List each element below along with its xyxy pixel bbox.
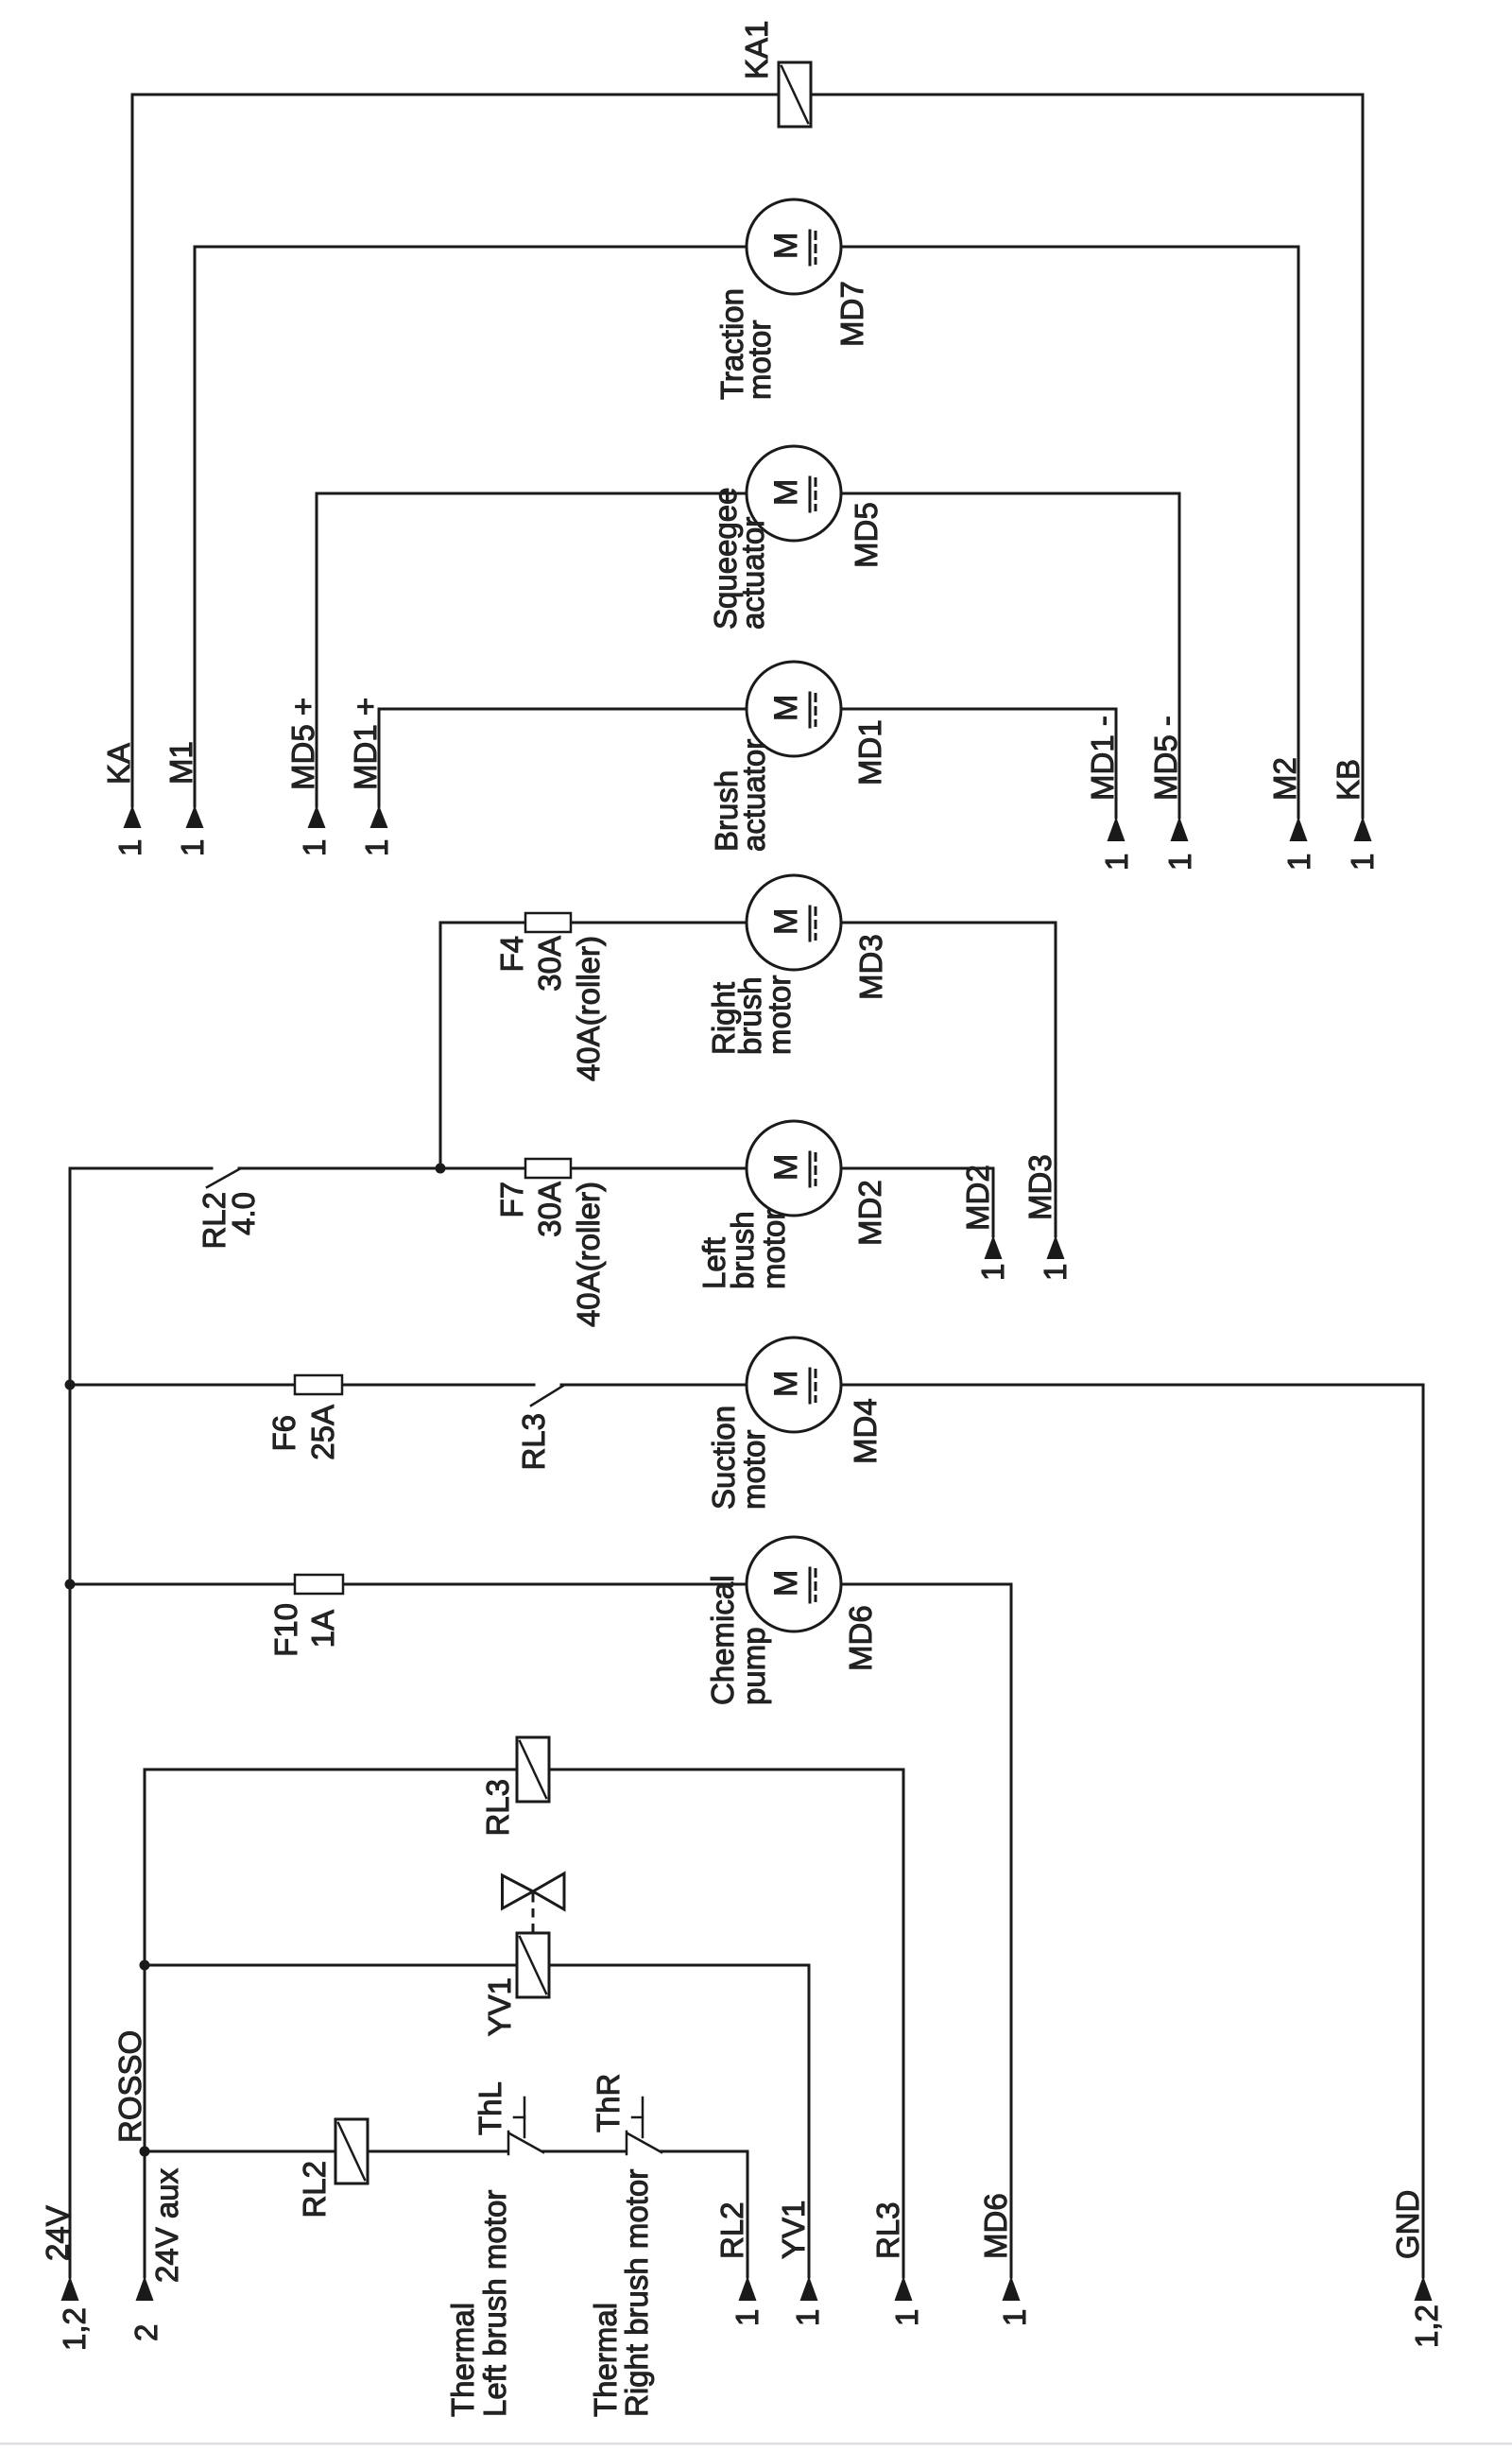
svg-text:MD5 +: MD5 +: [285, 698, 320, 790]
svg-text:MD1 +: MD1 +: [348, 698, 383, 790]
svg-text:1,2: 1,2: [57, 2307, 92, 2351]
svg-text:24V: 24V: [40, 2205, 75, 2261]
svg-text:25A: 25A: [305, 1405, 340, 1460]
svg-text:actuator: actuator: [736, 739, 771, 852]
svg-text:MD5: MD5: [849, 502, 884, 568]
svg-text:1: 1: [175, 839, 210, 856]
svg-text:Left brush motor: Left brush motor: [477, 2190, 512, 2417]
svg-text:MD6: MD6: [978, 2193, 1013, 2259]
svg-text:1: 1: [1099, 854, 1134, 871]
svg-text:MD3: MD3: [853, 934, 888, 1000]
svg-text:YV1: YV1: [482, 1977, 517, 2036]
svg-text:RL3: RL3: [480, 1779, 515, 1837]
svg-text:M: M: [768, 479, 804, 506]
svg-text:30A: 30A: [532, 1182, 567, 1237]
svg-text:1: 1: [1162, 854, 1197, 871]
svg-text:KA: KA: [101, 743, 136, 785]
svg-text:1: 1: [1038, 1264, 1073, 1281]
svg-text:MD3: MD3: [1022, 1154, 1057, 1220]
svg-text:motor: motor: [742, 320, 777, 400]
svg-text:F7: F7: [494, 1182, 529, 1218]
svg-text:1: 1: [975, 1264, 1010, 1281]
svg-text:M: M: [768, 1154, 804, 1181]
svg-text:30A: 30A: [532, 936, 567, 992]
svg-text:1: 1: [359, 839, 394, 856]
svg-text:MD7: MD7: [834, 281, 869, 347]
svg-text:actuator: actuator: [735, 517, 770, 630]
svg-text:F6: F6: [266, 1415, 301, 1452]
svg-text:1: 1: [1281, 854, 1316, 871]
svg-text:MD6: MD6: [843, 1605, 878, 1671]
svg-text:RL2: RL2: [297, 2161, 332, 2218]
svg-text:F10: F10: [268, 1603, 303, 1657]
svg-text:M: M: [768, 908, 804, 935]
svg-text:40A(roller): 40A(roller): [571, 936, 606, 1081]
svg-text:Thermal: Thermal: [588, 2303, 623, 2417]
svg-text:1,2: 1,2: [1409, 2304, 1444, 2348]
svg-text:F4: F4: [494, 936, 529, 973]
svg-text:1A: 1A: [305, 1610, 340, 1648]
svg-text:motor: motor: [762, 975, 797, 1055]
svg-text:M: M: [768, 1371, 804, 1397]
svg-text:MD4: MD4: [848, 1398, 883, 1464]
svg-text:1: 1: [112, 839, 147, 856]
svg-text:1: 1: [790, 2309, 825, 2326]
svg-text:MD5 -: MD5 -: [1148, 716, 1183, 801]
svg-text:M: M: [768, 1570, 804, 1597]
svg-text:2: 2: [129, 2324, 163, 2341]
svg-text:KB: KB: [1331, 759, 1366, 801]
svg-text:MD2: MD2: [852, 1180, 887, 1246]
svg-text:24V aux: 24V aux: [149, 2167, 184, 2283]
svg-text:1: 1: [889, 2309, 924, 2326]
svg-text:ThL: ThL: [472, 2081, 507, 2135]
svg-text:Chemical: Chemical: [705, 1575, 740, 1705]
svg-text:Thermal: Thermal: [445, 2303, 480, 2417]
svg-text:1: 1: [997, 2309, 1032, 2326]
svg-text:1: 1: [297, 839, 332, 856]
svg-text:1: 1: [730, 2309, 765, 2326]
svg-text:brush: brush: [725, 1211, 760, 1289]
svg-text:4.0: 4.0: [226, 1192, 261, 1235]
svg-text:RL3: RL3: [516, 1413, 551, 1471]
svg-text:RL3: RL3: [870, 2201, 905, 2259]
svg-text:M: M: [768, 233, 804, 259]
svg-text:1: 1: [1345, 854, 1380, 871]
svg-text:M1: M1: [163, 741, 198, 785]
svg-text:40A(roller): 40A(roller): [571, 1182, 606, 1327]
svg-text:motor: motor: [736, 1430, 771, 1510]
svg-text:ThR: ThR: [591, 2074, 626, 2132]
svg-text:RL2: RL2: [714, 2201, 749, 2259]
svg-text:KA1: KA1: [739, 21, 774, 79]
svg-text:MD1: MD1: [852, 719, 887, 785]
svg-text:M: M: [768, 695, 804, 721]
svg-text:ROSSO: ROSSO: [112, 2030, 147, 2143]
svg-text:YV1: YV1: [776, 2201, 811, 2259]
svg-text:Right brush motor: Right brush motor: [619, 2169, 654, 2417]
svg-text:MD1 -: MD1 -: [1085, 716, 1120, 801]
svg-text:MD2: MD2: [960, 1165, 995, 1231]
svg-text:M2: M2: [1267, 757, 1302, 801]
svg-text:motor: motor: [756, 1210, 791, 1289]
svg-text:pump: pump: [736, 1627, 771, 1705]
svg-text:GND: GND: [1390, 2190, 1425, 2259]
